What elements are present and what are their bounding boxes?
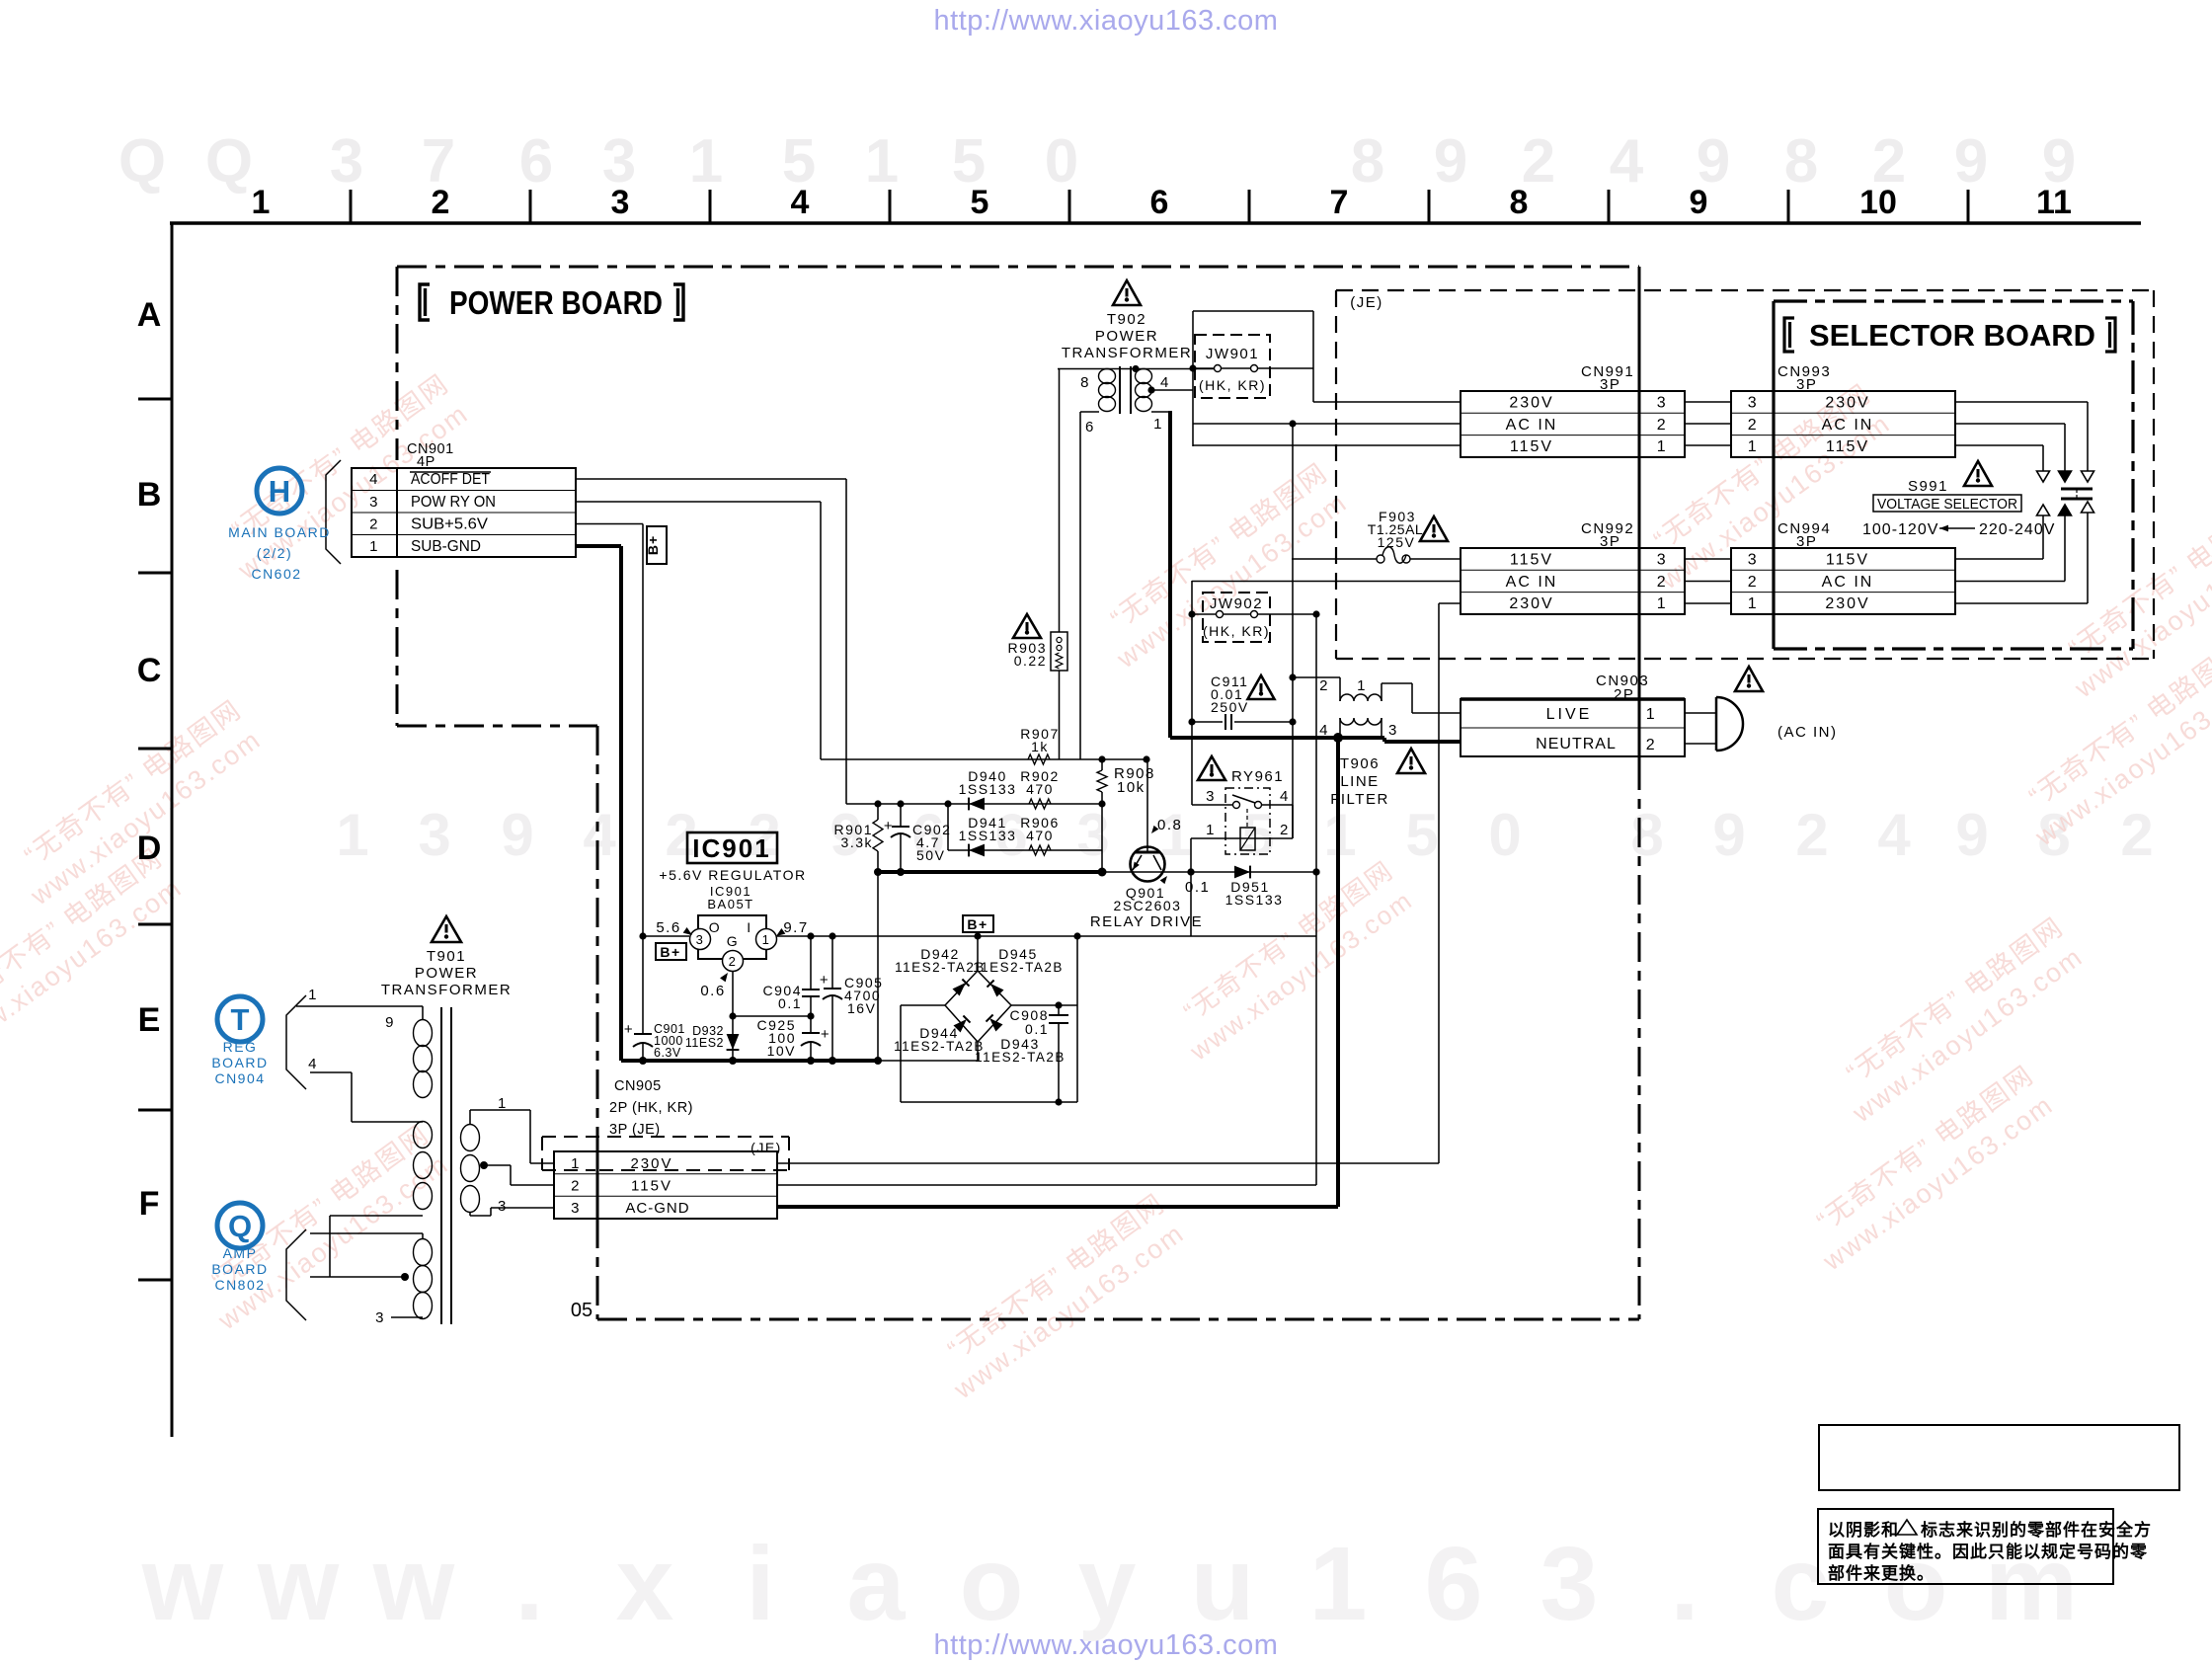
svg-text:115V: 115V — [1510, 552, 1553, 569]
svg-text:MAIN BOARD: MAIN BOARD — [228, 524, 331, 540]
svg-text:SELECTOR BOARD: SELECTOR BOARD — [1809, 318, 2095, 353]
svg-text:C: C — [137, 652, 162, 689]
svg-text:(HK, KR): (HK, KR) — [1203, 623, 1270, 639]
svg-text:RY961: RY961 — [1231, 768, 1284, 785]
svg-text:B+: B+ — [645, 535, 661, 555]
svg-text:AC IN: AC IN — [1506, 417, 1558, 434]
svg-text:470: 470 — [1026, 781, 1054, 797]
svg-text:1: 1 — [1357, 677, 1367, 694]
svg-text:TRANSFORMER: TRANSFORMER — [381, 982, 512, 998]
svg-text:TRANSFORMER: TRANSFORMER — [1062, 345, 1192, 361]
svg-text:115V: 115V — [1826, 438, 1869, 455]
svg-text:POWER BOARD: POWER BOARD — [449, 284, 663, 321]
svg-text:面具有关键性。因此只能以规定号码的零: 面具有关键性。因此只能以规定号码的零 — [1828, 1542, 2148, 1561]
svg-text:B: B — [137, 476, 162, 514]
svg-text:3: 3 — [1748, 395, 1758, 412]
svg-text:ACOFF DET: ACOFF DET — [411, 471, 490, 488]
svg-text:1SS133: 1SS133 — [959, 828, 1017, 843]
svg-text:3: 3 — [696, 932, 705, 947]
svg-text:1: 1 — [1657, 595, 1667, 612]
svg-text:7: 7 — [1330, 184, 1349, 221]
svg-text:I: I — [747, 919, 751, 935]
svg-text:Q: Q — [228, 1209, 252, 1243]
svg-text:T906: T906 — [1340, 755, 1380, 772]
svg-text:1: 1 — [1206, 822, 1216, 838]
svg-text:H: H — [269, 474, 290, 509]
svg-text:1k: 1k — [1031, 739, 1049, 754]
svg-text:11ES2: 11ES2 — [685, 1036, 724, 1050]
svg-text:(HK, KR): (HK, KR) — [1199, 377, 1266, 393]
svg-text:1: 1 — [1153, 416, 1163, 433]
svg-text:D: D — [137, 830, 162, 867]
svg-text:2: 2 — [1646, 737, 1656, 753]
svg-text:3: 3 — [1206, 788, 1216, 805]
svg-text:4: 4 — [369, 471, 379, 488]
svg-text:0.22: 0.22 — [1014, 653, 1047, 669]
svg-text:JW901: JW901 — [1206, 346, 1259, 362]
svg-text:+: + — [624, 1021, 634, 1038]
svg-text:4: 4 — [1160, 374, 1170, 391]
svg-text:T901: T901 — [427, 948, 466, 965]
svg-text:115V: 115V — [631, 1178, 672, 1195]
svg-text:+: + — [821, 1026, 830, 1043]
svg-text:F: F — [139, 1185, 160, 1223]
svg-text:250V: 250V — [1211, 699, 1249, 715]
svg-text:0.8: 0.8 — [1157, 817, 1182, 833]
svg-text:4: 4 — [1280, 788, 1290, 805]
svg-text:1: 1 — [1748, 595, 1758, 612]
svg-text:3P (JE): 3P (JE) — [609, 1122, 661, 1138]
svg-text:SUB-GND: SUB-GND — [411, 538, 481, 555]
svg-text:230V: 230V — [1825, 595, 1869, 612]
svg-text:AC IN: AC IN — [1822, 417, 1874, 434]
svg-text:2: 2 — [571, 1178, 581, 1195]
svg-text:BOARD: BOARD — [211, 1055, 268, 1070]
svg-text:8: 8 — [1510, 184, 1529, 221]
svg-text:(AC IN): (AC IN) — [1777, 724, 1838, 741]
svg-text:B+: B+ — [660, 944, 680, 960]
svg-text:11ES2-TA2B: 11ES2-TA2B — [975, 1050, 1066, 1065]
svg-text:100-120V: 100-120V — [1862, 521, 1938, 538]
svg-text:5: 5 — [971, 184, 989, 221]
svg-text:T: T — [231, 1002, 250, 1037]
svg-text:11: 11 — [2036, 184, 2072, 221]
svg-text:1: 1 — [1646, 706, 1656, 723]
svg-text:G: G — [727, 933, 739, 949]
svg-text:230V: 230V — [1825, 395, 1869, 412]
svg-text:10k: 10k — [1117, 779, 1145, 796]
svg-text:6: 6 — [1150, 184, 1169, 221]
svg-text:5.6: 5.6 — [656, 919, 680, 936]
svg-text:220-240V: 220-240V — [1979, 521, 2055, 538]
svg-text:2: 2 — [369, 516, 379, 533]
svg-text:10V: 10V — [767, 1043, 796, 1059]
svg-text:(JE): (JE) — [1350, 294, 1383, 311]
svg-text:0.1: 0.1 — [778, 995, 802, 1011]
svg-text:1: 1 — [762, 932, 771, 947]
svg-text:1: 1 — [1657, 438, 1667, 455]
svg-text:IC901: IC901 — [692, 833, 770, 863]
svg-text:470: 470 — [1026, 828, 1054, 843]
svg-text:1SS133: 1SS133 — [1225, 892, 1284, 908]
svg-text:CN802: CN802 — [214, 1277, 265, 1293]
svg-text:3: 3 — [571, 1200, 581, 1217]
svg-text:6.3V: 6.3V — [654, 1046, 681, 1060]
svg-text:1: 1 — [571, 1155, 581, 1172]
svg-text:115V: 115V — [1826, 552, 1869, 569]
svg-text:SUB+5.6V: SUB+5.6V — [411, 516, 489, 533]
svg-text:2: 2 — [1657, 574, 1667, 591]
svg-text:3: 3 — [369, 494, 379, 511]
svg-text:0.1: 0.1 — [1185, 879, 1210, 896]
svg-text:CN905: CN905 — [614, 1078, 662, 1094]
svg-text:1: 1 — [252, 184, 271, 221]
svg-text:POW RY ON: POW RY ON — [411, 494, 496, 511]
svg-text:8: 8 — [1080, 374, 1090, 391]
svg-text:标志来识别的零部件在安全方: 标志来识别的零部件在安全方 — [1921, 1520, 2152, 1540]
svg-text:REG: REG — [223, 1039, 258, 1055]
svg-text:230V: 230V — [1509, 395, 1553, 412]
svg-text:3: 3 — [1748, 552, 1758, 569]
svg-text:1: 1 — [1748, 438, 1758, 455]
svg-text:3: 3 — [375, 1309, 385, 1326]
svg-text:3: 3 — [1388, 722, 1398, 739]
svg-text:125V: 125V — [1378, 534, 1416, 550]
svg-text:POWER: POWER — [415, 965, 478, 982]
svg-text:230V: 230V — [630, 1155, 672, 1172]
svg-text:(2/2): (2/2) — [257, 545, 292, 561]
svg-text:11ES2-TA2B: 11ES2-TA2B — [973, 960, 1064, 975]
svg-text:11ES2-TA2B: 11ES2-TA2B — [894, 1039, 985, 1054]
svg-text:0.6: 0.6 — [700, 983, 725, 999]
svg-text:POWER: POWER — [1095, 328, 1158, 345]
svg-text:CN904: CN904 — [214, 1070, 265, 1086]
svg-text:S991: S991 — [1908, 478, 1948, 495]
svg-text:9: 9 — [1690, 184, 1708, 221]
svg-text:VOLTAGE SELECTOR: VOLTAGE SELECTOR — [1877, 497, 2017, 513]
svg-text:2P (HK, KR): 2P (HK, KR) — [609, 1100, 693, 1116]
svg-text:9.7: 9.7 — [783, 919, 808, 936]
svg-text:AC-GND: AC-GND — [625, 1200, 689, 1217]
svg-text:JW902: JW902 — [1210, 595, 1263, 612]
svg-text:2: 2 — [729, 954, 738, 969]
svg-text:NEUTRAL: NEUTRAL — [1536, 736, 1617, 752]
svg-text:BOARD: BOARD — [211, 1261, 268, 1277]
svg-text:2: 2 — [1280, 822, 1290, 838]
svg-text:CN602: CN602 — [251, 566, 301, 582]
svg-text:LIVE: LIVE — [1546, 706, 1593, 723]
svg-text:B+: B+ — [967, 916, 987, 932]
svg-text:05: 05 — [571, 1300, 592, 1321]
svg-text:0.1: 0.1 — [1025, 1021, 1049, 1037]
svg-text:3: 3 — [611, 184, 630, 221]
svg-text:+5.6V REGULATOR: +5.6V REGULATOR — [659, 867, 806, 883]
svg-text:+: + — [884, 818, 894, 834]
svg-text:2: 2 — [432, 184, 450, 221]
svg-text:4: 4 — [308, 1056, 318, 1072]
svg-text:10: 10 — [1859, 184, 1897, 221]
svg-text:1: 1 — [308, 987, 318, 1003]
svg-text:部件来更换。: 部件来更换。 — [1828, 1563, 1935, 1583]
svg-text:以阴影和: 以阴影和 — [1828, 1521, 1899, 1540]
svg-text:16V: 16V — [847, 1000, 876, 1016]
svg-text:3: 3 — [1657, 552, 1667, 569]
svg-text:+: + — [820, 972, 829, 989]
svg-text:2: 2 — [1319, 677, 1329, 694]
svg-text:1: 1 — [498, 1095, 508, 1112]
svg-text:2: 2 — [1748, 417, 1758, 434]
svg-text:50V: 50V — [916, 847, 945, 863]
svg-text:A: A — [137, 296, 162, 334]
svg-text:1SS133: 1SS133 — [959, 781, 1017, 797]
svg-text:RELAY DRIVE: RELAY DRIVE — [1090, 913, 1203, 930]
svg-text:O: O — [709, 919, 721, 935]
svg-text:115V: 115V — [1510, 438, 1553, 455]
svg-text:2: 2 — [1657, 417, 1667, 434]
svg-text:4: 4 — [791, 184, 810, 221]
svg-text:2SC2603: 2SC2603 — [1114, 898, 1182, 913]
svg-text:3: 3 — [1657, 395, 1667, 412]
svg-text:E: E — [138, 1001, 161, 1039]
svg-text:9: 9 — [385, 1014, 395, 1031]
svg-text:2: 2 — [1748, 574, 1758, 591]
svg-text:T902: T902 — [1107, 311, 1146, 328]
svg-text:3: 3 — [498, 1198, 508, 1215]
svg-text:6: 6 — [1085, 419, 1095, 436]
svg-text:AMP: AMP — [223, 1245, 258, 1261]
svg-text:AC IN: AC IN — [1822, 574, 1874, 591]
svg-text:230V: 230V — [1509, 595, 1553, 612]
svg-text:AC IN: AC IN — [1506, 574, 1558, 591]
svg-text:LINE: LINE — [1340, 773, 1379, 790]
svg-text:1: 1 — [369, 538, 379, 555]
svg-text:BA05T: BA05T — [707, 897, 753, 911]
svg-text:3.3k: 3.3k — [841, 834, 873, 850]
